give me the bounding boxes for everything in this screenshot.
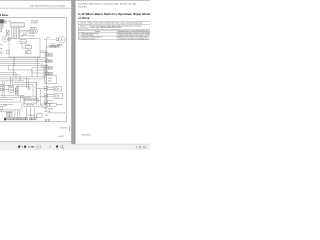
left toolbar background bbox=[0, 142, 71, 150]
junction block right of strip bbox=[36, 114, 42, 118]
top screen edge bbox=[0, 0, 150, 2]
component block top-left bbox=[0, 19, 4, 23]
table 2 frame bbox=[78, 31, 152, 40]
small boxes beside connector bbox=[15, 88, 18, 94]
left edge component stubs bbox=[0, 44, 2, 54]
component box mid-left bbox=[7, 50, 10, 53]
box exit wires to trunk bbox=[40, 51, 47, 53]
fuse circle F1 bbox=[0, 24, 3, 27]
toolbar icon: middle faint bbox=[21, 146, 23, 148]
controller box bbox=[45, 76, 57, 84]
harness mesh loops bbox=[14, 82, 40, 107]
relay row 2 box bbox=[54, 94, 63, 99]
right strip icon 3 bbox=[143, 146, 146, 149]
svg-text:INT: INT bbox=[26, 52, 28, 54]
right strip icon 2 bbox=[139, 146, 141, 149]
wires dropping to bottom strip bbox=[15, 108, 35, 118]
main harness buses bbox=[0, 57, 47, 67]
svg-text:Wiper monitor does not flash w: Wiper monitor does not flash when wiper … bbox=[89, 22, 142, 25]
svg-text:M28 2W: M28 2W bbox=[45, 111, 51, 113]
component row box bbox=[41, 104, 47, 107]
svg-text:monitor (See TESTING AND ADJUS: monitor (See TESTING AND ADJUSTING) bbox=[90, 26, 122, 29]
wiper switch connector box bbox=[11, 23, 25, 27]
wire bundle from switch connector bbox=[12, 27, 20, 39]
svg-text:UNIT: UNIT bbox=[48, 80, 52, 82]
svg-text:information: information bbox=[79, 27, 87, 30]
connector pair 2 bbox=[45, 58, 53, 62]
center verticals bbox=[26, 77, 28, 90]
relay row 3 connector bbox=[45, 100, 54, 104]
toolbar icon: arrow bbox=[49, 146, 50, 148]
svg-text:RY 0.85W: RY 0.85W bbox=[31, 23, 38, 25]
lower wiper wire bbox=[46, 46, 56, 48]
svg-text:1: 1 bbox=[79, 34, 80, 36]
svg-text:CTRL: CTRL bbox=[48, 78, 52, 80]
bottom-left component bbox=[0, 106, 3, 110]
svg-text:M30 2W M31: M30 2W M31 bbox=[26, 105, 34, 107]
toolbar page label bbox=[28, 146, 35, 149]
branch wires to washer cluster bbox=[18, 30, 30, 32]
divider band between pages bbox=[71, 0, 75, 144]
svg-text:B 1.25B 2B: B 1.25B 2B bbox=[28, 115, 35, 117]
svg-text:OFF ON: OFF ON bbox=[21, 41, 26, 43]
svg-text:2: 2 bbox=[79, 37, 80, 39]
wiper motor circle bbox=[59, 36, 66, 43]
toolbar zoom button bbox=[37, 145, 42, 148]
halftone box beside block bbox=[4, 20, 6, 23]
wiper switch body box bbox=[9, 39, 40, 57]
bottom-right wire bbox=[47, 112, 64, 113]
section marker B bbox=[48, 119, 50, 122]
svg-text:R5: R5 bbox=[42, 105, 44, 107]
svg-text:M-21: M-21 bbox=[52, 44, 55, 46]
vertical connector box bbox=[9, 85, 14, 92]
bottom connector strip bbox=[7, 118, 37, 120]
svg-text:FUSE: FUSE bbox=[3, 105, 7, 107]
lower-left wires bbox=[0, 95, 37, 110]
svg-text:ot Work: ot Work bbox=[78, 16, 90, 20]
connector pair 4 bbox=[45, 71, 53, 75]
svg-text:1 / 494: 1 / 494 bbox=[28, 146, 35, 149]
center long bus bbox=[24, 77, 45, 79]
relay coil box K1 bbox=[6, 31, 9, 36]
svg-text:W-B 0.85R: W-B 0.85R bbox=[31, 21, 38, 23]
svg-text:9JM-08572: 9JM-08572 bbox=[82, 135, 91, 137]
vertical trunk right bbox=[46, 37, 48, 104]
svg-text:Flash But: Flash But bbox=[78, 5, 87, 8]
trunk branch top bbox=[47, 36, 51, 38]
svg-text:al Steer: al Steer bbox=[0, 13, 9, 17]
horizontals lower center bbox=[32, 68, 47, 73]
svg-text:continuity or resistance is st: continuity or resistance is standard val… bbox=[118, 37, 149, 40]
left small components bbox=[0, 84, 9, 91]
right column label bar bbox=[50, 44, 60, 47]
verticals into connector bbox=[2, 77, 12, 97]
section marker A bbox=[45, 119, 47, 122]
table 2 header bbox=[95, 30, 162, 33]
toolbar icon: next page bbox=[24, 146, 26, 148]
relay row 1 box bbox=[54, 86, 62, 91]
svg-text:E-42 Related Electrical Circui: E-42 Related Electrical Circuit Diagram bbox=[30, 5, 66, 8]
wiper motor feed dashed wire bbox=[44, 38, 59, 41]
relay row 1 connector bbox=[45, 86, 54, 90]
left page header rule bbox=[0, 7, 71, 9]
wire with connector M4 bbox=[21, 34, 34, 36]
right strip icon 1 bbox=[136, 146, 138, 149]
washer pump circle bbox=[34, 30, 38, 34]
toolbar icon: copy page bbox=[61, 145, 64, 148]
page edge mark bbox=[68, 126, 71, 132]
verticals center bbox=[37, 58, 44, 79]
schematic frame bbox=[0, 18, 66, 122]
small wire under labels bbox=[24, 106, 40, 108]
right bottom strip bbox=[0, 144, 150, 150]
svg-text:20-228: 20-228 bbox=[58, 136, 64, 138]
table 1 frame bbox=[78, 22, 152, 30]
small part left edge bbox=[0, 29, 2, 32]
svg-text:49%: 49% bbox=[37, 146, 41, 148]
bottom cluster boxes bbox=[6, 112, 12, 117]
washer relay box bbox=[30, 30, 34, 34]
svg-text:connector contact: connector contact bbox=[82, 37, 96, 40]
table 2 row 1 bbox=[79, 32, 151, 37]
bottom-right label boxes bbox=[45, 103, 62, 106]
connector pair 3 bbox=[45, 65, 53, 69]
toolbar icon: stop bbox=[56, 146, 58, 148]
mid verticals to bottom bbox=[24, 82, 47, 105]
svg-text:M27 WIPER: M27 WIPER bbox=[45, 108, 54, 110]
relay row 2 connector bbox=[45, 94, 54, 98]
motor circle M1 bbox=[2, 37, 7, 42]
svg-text:M29: M29 bbox=[45, 115, 48, 117]
svg-text:9JM08572: 9JM08572 bbox=[60, 127, 68, 129]
bottom bus bbox=[0, 110, 22, 112]
left page mid-bottom buses bbox=[0, 77, 24, 81]
ground strip dark block bbox=[4, 118, 6, 121]
table 1 row labels bbox=[79, 22, 87, 30]
connector pair 1 bbox=[45, 52, 53, 56]
svg-text:Trouble: Trouble bbox=[80, 22, 86, 25]
harness elbow cascade bbox=[0, 66, 32, 81]
table 1 content text bbox=[89, 22, 142, 30]
toolbar icon: prev page bbox=[18, 146, 20, 148]
table 2 row 2 bbox=[79, 36, 149, 41]
svg-text:E-42 When Wiper Switch Is Oper: E-42 When Wiper Switch Is Operated, Wipe… bbox=[78, 3, 136, 6]
page background bbox=[0, 0, 150, 150]
svg-text:M4 2W: M4 2W bbox=[23, 34, 28, 36]
small box near motor bbox=[8, 37, 10, 40]
